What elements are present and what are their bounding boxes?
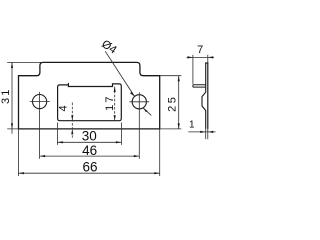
side view top cap <box>205 62 208 64</box>
svg-text:17: 17 <box>104 94 116 111</box>
dimension 7 extension lines <box>193 55 208 84</box>
svg-text:31: 31 <box>0 87 12 104</box>
svg-text:66: 66 <box>82 160 97 175</box>
plate outline (front view) <box>19 62 160 129</box>
dimension 1 extension lines (plate faces extended) <box>206 129 208 139</box>
dimension 4 (bottom rail) line and arrows <box>71 103 73 138</box>
side view back face with dimple bump <box>202 63 206 129</box>
inner opening with raised ears <box>58 84 122 121</box>
dimension 31 extension lines <box>7 62 41 129</box>
dimension 30 extension lines <box>57 123 121 145</box>
dimension 30 line <box>57 141 121 143</box>
dimension 7 line <box>187 56 214 58</box>
dimension 66 extension lines <box>19 129 160 176</box>
dimension 66 line <box>19 172 160 174</box>
hole H1 (left) <box>33 95 47 109</box>
dimension 25 extension lines <box>160 76 182 129</box>
hole H1 centerlines <box>30 92 50 159</box>
side view lip (bent tongue) <box>193 85 206 87</box>
dimension 17 line and arrows <box>114 87 116 121</box>
leader Ø4 tail arrow (lower right of hole) <box>143 108 151 116</box>
hole H2 (right) <box>132 95 146 109</box>
svg-text:4: 4 <box>58 105 70 111</box>
dimension 1 line <box>188 131 215 133</box>
side view front face <box>207 63 209 129</box>
svg-text:46: 46 <box>82 143 97 158</box>
svg-text:1: 1 <box>189 120 195 131</box>
dimension 25 line <box>178 76 180 129</box>
hole H2 centerlines <box>129 92 149 159</box>
svg-text:25: 25 <box>166 95 178 112</box>
svg-text:7: 7 <box>197 44 203 56</box>
dimension 46 line <box>40 155 140 157</box>
svg-text:30: 30 <box>82 129 97 144</box>
leader Ø4 line with arrow to hole H2 <box>105 51 134 96</box>
dimension 31 line <box>11 62 13 133</box>
inner opening left ear step tick <box>67 83 69 85</box>
